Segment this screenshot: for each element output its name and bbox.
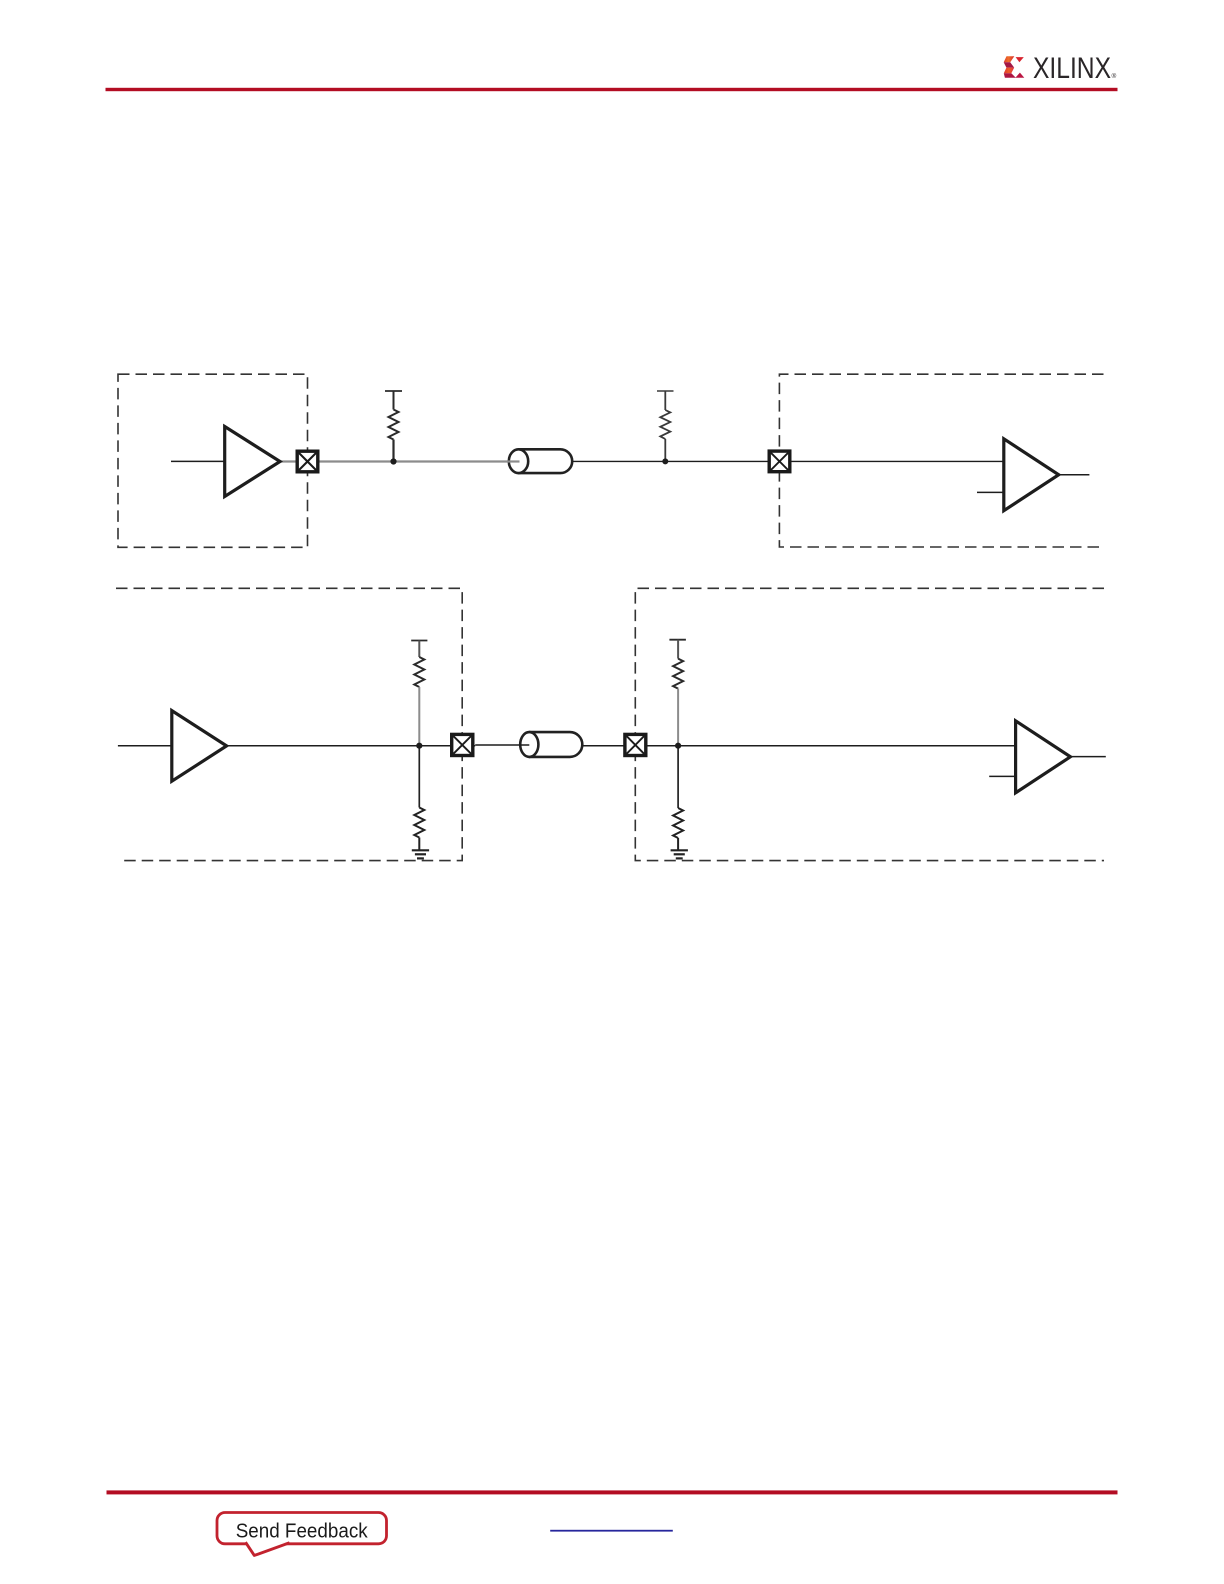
pad symbol P4 (fig 2 receiver pad) [625, 734, 646, 755]
wire: transmission line to receiver (fig 2) [582, 745, 1015, 747]
svg-text:XILINX: XILINX [1033, 52, 1111, 85]
Xilinx logo mark [1004, 56, 1025, 78]
svg-text:Send Feedback: Send Feedback [236, 1519, 369, 1542]
ground symbol right (fig 2) [671, 850, 688, 858]
wire: driver input (fig 1) [171, 460, 225, 462]
node: junction dot right (fig 2) [675, 743, 681, 749]
receiver buffer triangle (fig 2) [1016, 721, 1071, 793]
FPGA driver dashed box (figure 2 left, open left side) [116, 588, 462, 860]
node: junction dot 2 (fig 1) [662, 458, 668, 464]
footer link rule (blue) [550, 1530, 673, 1532]
header rule [106, 88, 1118, 91]
footer rule [107, 1490, 1118, 1494]
node: junction dot left (fig 2) [416, 743, 422, 749]
wire: receiver VREF stub (fig 2) [989, 775, 1015, 777]
driver buffer triangle (fig 2) [172, 711, 227, 782]
ground symbol left (fig 2) [412, 850, 429, 858]
wire: receiver output (fig 2) [1070, 756, 1105, 758]
pad symbol P3 (fig 2 driver pad) [452, 734, 473, 755]
resistor R1 pull-up (fig 1 left, VTT) [385, 391, 402, 461]
Send Feedback button [217, 1513, 387, 1556]
wire: driver input (fig 2) [118, 745, 172, 747]
driver buffer triangle (fig 1) [225, 427, 280, 497]
FPGA receiver dashed box (figure 1 right, open right side) [779, 374, 1103, 547]
FPGA receiver dashed box (figure 2 right, open right side) [635, 588, 1104, 860]
Xilinx wordmark [1033, 52, 1117, 85]
wire: driver output to pad (fig 2) [227, 745, 476, 747]
resistor: pull-down right with ground (fig 2) [673, 746, 683, 851]
wire: receiver VREF stub (fig 1) [977, 491, 1004, 493]
resistor: pull-down left with ground (fig 2) [414, 746, 424, 851]
transmission line symbol (fig 2) [519, 732, 582, 757]
wire: driver output to transmission line (fig 1, gray) [280, 460, 520, 462]
receiver buffer triangle (fig 1) [1004, 439, 1059, 511]
pad symbol P1 (fig 1 driver pad) [297, 451, 318, 472]
resistor: pull-up left (fig 2) [411, 641, 427, 746]
node: junction dot 1 (fig 1) [390, 458, 396, 464]
wire: transmission line to receiver (fig 1) [572, 460, 1004, 462]
pad symbol P2 (fig 1 receiver pad) [769, 451, 790, 472]
transmission line symbol (fig 1) [507, 449, 572, 473]
resistor R2 pull-up (fig 1 right, VTT) [657, 391, 674, 461]
resistor: pull-up right (fig 2) [669, 640, 686, 746]
wire: pad to transmission line (fig 2) [475, 744, 529, 746]
wire: receiver output (fig 1) [1059, 474, 1090, 476]
svg-text:®: ® [1112, 72, 1117, 80]
FPGA driver dashed box (figure 1 left) [118, 374, 308, 547]
